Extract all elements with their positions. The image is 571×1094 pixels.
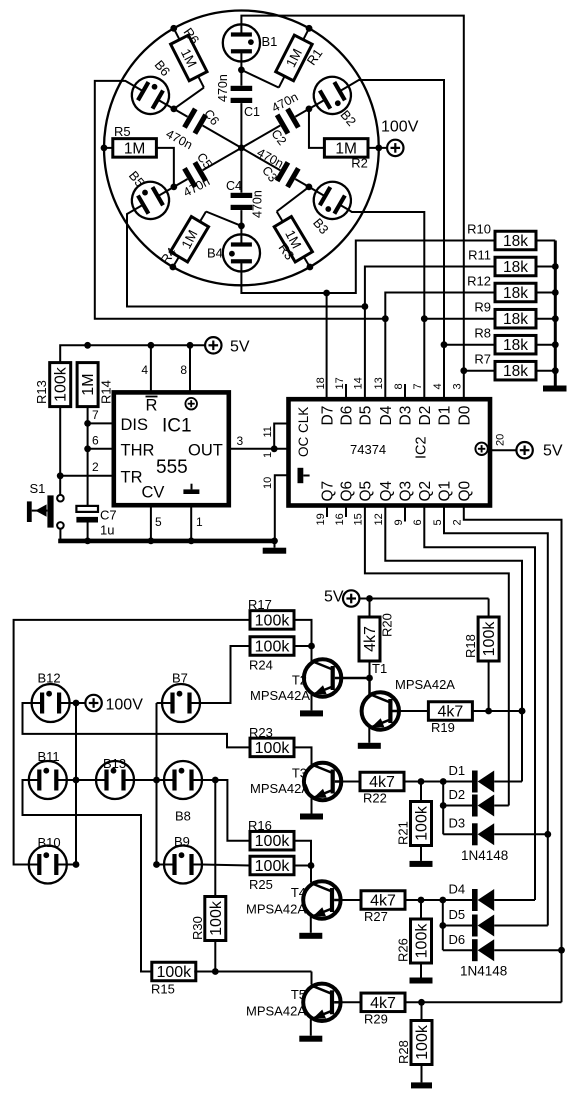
- svg-text:8: 8: [180, 363, 187, 377]
- svg-text:IC2: IC2: [414, 436, 430, 459]
- svg-text:1: 1: [262, 452, 274, 458]
- resistor R24 100k: [249, 637, 294, 673]
- resistor R8 18k: [474, 326, 555, 355]
- neon lamp B4: [223, 234, 260, 271]
- wire 18k ground bus: [552, 241, 559, 375]
- resistor R27 4k7: [361, 891, 472, 924]
- resistor R25 100k: [249, 856, 294, 892]
- resistor R4 1M: [157, 212, 241, 271]
- wire B6 to R12 junction: [95, 81, 386, 319]
- resistor R13 100k: [34, 363, 71, 407]
- svg-text:1: 1: [196, 515, 203, 529]
- svg-text:C1: C1: [244, 105, 260, 119]
- IC IC2 74374 body: [289, 399, 491, 505]
- svg-text:D6: D6: [339, 406, 356, 426]
- svg-text:3: 3: [237, 434, 244, 448]
- svg-text:R14: R14: [99, 380, 114, 404]
- svg-text:T2: T2: [292, 673, 307, 688]
- svg-text:100k: 100k: [156, 964, 192, 981]
- capacitor C3: [241, 148, 316, 191]
- svg-text:D2: D2: [449, 787, 466, 802]
- label C6 470n: [164, 107, 222, 152]
- svg-text:B10: B10: [38, 835, 61, 850]
- wire Q5 (pin15) to column: [365, 506, 509, 806]
- svg-text:100k: 100k: [255, 740, 291, 757]
- label C5 470n: [181, 150, 215, 200]
- svg-text:R7: R7: [474, 352, 491, 367]
- svg-text:D5: D5: [358, 406, 375, 426]
- svg-text:R21: R21: [396, 821, 411, 845]
- diode D1 1N4148: [449, 763, 523, 793]
- wire T4 base to R27: [341, 899, 361, 901]
- wire R7 row: [464, 370, 495, 372]
- svg-text:B8: B8: [175, 809, 191, 824]
- wire R17/R24 to T2 collector: [294, 620, 315, 662]
- svg-text:18k: 18k: [503, 311, 528, 328]
- svg-text:R24: R24: [249, 658, 273, 673]
- svg-text:T3: T3: [292, 766, 307, 781]
- wire 5V to R18: [359, 595, 488, 617]
- neon lamp B3: [307, 175, 358, 226]
- svg-text:S1: S1: [30, 481, 46, 496]
- svg-text:OC CLK: OC CLK: [296, 407, 311, 457]
- svg-text:2: 2: [92, 460, 99, 474]
- svg-text:100k: 100k: [414, 923, 431, 959]
- wire OUT pin3 to IC2: [229, 424, 289, 459]
- wire R9 row: [424, 318, 495, 320]
- transistor T4 MPSA42A: [246, 881, 341, 918]
- wire T2 emitter: [300, 695, 323, 717]
- supply +100V (lamp grid): [85, 695, 143, 714]
- label B1: [262, 34, 278, 49]
- resistor R10 18k: [467, 222, 555, 251]
- svg-text:R11: R11: [468, 248, 491, 263]
- svg-text:D3: D3: [398, 406, 415, 426]
- wire T3 base to R22: [341, 781, 360, 783]
- wire T2 collector: [311, 646, 313, 662]
- svg-text:20: 20: [495, 434, 507, 446]
- neon lamp B6: [125, 70, 176, 121]
- label B2: [337, 107, 359, 129]
- wire B8 to R16: [202, 777, 250, 841]
- svg-text:18k: 18k: [503, 337, 528, 354]
- svg-text:R26: R26: [396, 938, 411, 962]
- wire pin9 stub: [404, 506, 406, 522]
- switch S1 pushbutton: [27, 481, 64, 529]
- svg-text:T5: T5: [291, 987, 306, 1002]
- wire pin8 (vcc): [180, 345, 190, 392]
- wire R15 to T5 collector: [194, 968, 311, 984]
- resistor R1 1M: [241, 25, 325, 88]
- svg-text:T1: T1: [372, 661, 387, 676]
- svg-text:Q7: Q7: [320, 481, 337, 502]
- svg-text:C4: C4: [226, 179, 242, 193]
- label B5: [126, 168, 148, 190]
- wire B2 to D1 (pin4): [348, 80, 447, 399]
- svg-text:DIS: DIS: [121, 416, 149, 434]
- svg-text:R25: R25: [249, 877, 273, 892]
- supply +5V (IC2): [516, 442, 562, 460]
- svg-text:5V: 5V: [324, 589, 344, 606]
- svg-text:D1: D1: [437, 406, 454, 426]
- svg-text:Q3: Q3: [398, 481, 415, 502]
- resistor R7 18k: [474, 352, 555, 381]
- svg-text:100V: 100V: [381, 119, 419, 136]
- ground (R21): [410, 846, 433, 867]
- svg-text:18k: 18k: [503, 285, 528, 302]
- label 1N4148 (D1-D3): [461, 848, 508, 863]
- svg-text:4k7: 4k7: [369, 774, 395, 791]
- svg-text:1N4148: 1N4148: [460, 964, 507, 979]
- resistor R5 1M: [101, 124, 174, 187]
- wire pin19 stub: [326, 506, 328, 518]
- wire R12 row to D4 (pin13): [382, 293, 495, 400]
- svg-text:Q6: Q6: [339, 481, 356, 502]
- symbol CV internal ground (IC1): [183, 484, 199, 494]
- transistor T2 MPSA42A: [250, 659, 369, 703]
- svg-text:R18: R18: [463, 634, 478, 658]
- wire B10 to R17: [14, 620, 250, 865]
- svg-text:5V: 5V: [230, 339, 250, 356]
- svg-text:R12: R12: [467, 274, 491, 289]
- resistor R17 100k: [248, 597, 294, 629]
- wire B13/B7/B9 junction column: [134, 703, 164, 868]
- svg-text:100k: 100k: [255, 639, 291, 656]
- svg-text:D3: D3: [449, 816, 466, 831]
- resistor R16 100k: [248, 818, 294, 850]
- wire pin17 stub: [345, 384, 347, 399]
- svg-text:T4: T4: [291, 885, 306, 900]
- resistor R19 4k7: [428, 702, 525, 735]
- resistor R22 4k7: [360, 772, 472, 805]
- svg-text:R28: R28: [396, 1040, 411, 1064]
- svg-text:Q5: Q5: [358, 481, 375, 502]
- labels D7-D0 and top pin numbers: [315, 377, 474, 425]
- wire T5 emitter: [299, 1019, 322, 1041]
- capacitor C4: [231, 148, 253, 234]
- resistor R15 100k: [151, 962, 196, 996]
- svg-text:6: 6: [412, 519, 424, 525]
- label C4 470n: [226, 179, 265, 218]
- capacitor C6: [167, 105, 242, 148]
- resistor R30 100k: [190, 897, 226, 972]
- ground (R28): [411, 1065, 432, 1089]
- wire pin1 (gnd): [191, 505, 203, 541]
- label B6: [152, 57, 174, 79]
- svg-text:CV: CV: [142, 484, 165, 502]
- svg-text:MPSA42A: MPSA42A: [246, 1004, 306, 1019]
- resistor R11 18k: [468, 248, 555, 277]
- svg-text:14: 14: [353, 377, 365, 389]
- capacitor C7 1u: [76, 506, 116, 541]
- svg-text:15: 15: [353, 513, 365, 525]
- svg-text:B11: B11: [38, 749, 60, 764]
- svg-text:R15: R15: [151, 982, 175, 997]
- ground (555 rail): [263, 541, 287, 554]
- svg-text:R: R: [146, 397, 158, 415]
- wire B12 to R23: [23, 703, 251, 747]
- capacitor C1: [231, 62, 253, 148]
- wire B7 to R24: [200, 646, 250, 703]
- svg-text:B1: B1: [262, 34, 278, 49]
- svg-text:3: 3: [452, 383, 464, 389]
- svg-text:R10: R10: [467, 222, 491, 237]
- wire ground rail (555): [58, 538, 278, 545]
- wire R14 to DIS/THR/C7: [84, 406, 91, 506]
- wire 100V bus vertical: [67, 700, 96, 868]
- diode D3 1N4148: [443, 816, 548, 846]
- svg-text:18k: 18k: [503, 259, 528, 276]
- label C1 470n: [216, 74, 260, 119]
- svg-text:11: 11: [262, 426, 274, 437]
- resistor R3 1M: [274, 187, 313, 271]
- svg-text:R17: R17: [248, 597, 272, 612]
- svg-text:Q2: Q2: [417, 481, 434, 502]
- wire B1 to D0 (pin3): [241, 16, 467, 400]
- svg-text:D6: D6: [449, 932, 466, 947]
- svg-text:8: 8: [393, 383, 405, 389]
- svg-text:THR: THR: [121, 442, 155, 460]
- svg-text:B7: B7: [172, 671, 188, 686]
- svg-text:OUT: OUT: [188, 442, 223, 460]
- wire 100V ring bus (circle): [104, 11, 379, 286]
- capacitor C2: [241, 105, 316, 148]
- svg-text:100k: 100k: [255, 858, 291, 875]
- svg-text:2: 2: [452, 519, 464, 525]
- svg-text:18k: 18k: [503, 363, 528, 380]
- neon lamp B1: [223, 24, 260, 61]
- diode D4 1N4148: [449, 882, 536, 912]
- svg-text:17: 17: [334, 377, 346, 389]
- wire Q1 (pin5) to column: [444, 506, 551, 926]
- svg-text:R29: R29: [364, 1012, 388, 1027]
- resistor R12 18k: [467, 274, 555, 303]
- svg-text:D4: D4: [378, 405, 395, 425]
- wire pin5 (cv): [151, 505, 162, 541]
- neon lamp B7: [162, 671, 200, 723]
- wire R13 to S1/TR: [57, 406, 64, 494]
- svg-text:4k7: 4k7: [370, 995, 396, 1012]
- neon lamp B2: [307, 70, 358, 121]
- svg-text:B9: B9: [174, 834, 190, 849]
- svg-text:470n: 470n: [216, 74, 230, 102]
- svg-text:D7: D7: [320, 406, 337, 426]
- svg-text:5: 5: [155, 515, 162, 529]
- svg-text:Q4: Q4: [378, 480, 395, 501]
- svg-text:R2: R2: [351, 156, 368, 171]
- svg-text:MPSA42A: MPSA42A: [250, 688, 310, 703]
- svg-text:B12: B12: [38, 671, 61, 686]
- wire T4 emitter: [299, 917, 322, 939]
- svg-text:16: 16: [334, 513, 346, 525]
- svg-text:R5: R5: [114, 124, 131, 139]
- svg-text:4: 4: [432, 383, 444, 389]
- svg-text:MPSA42A: MPSA42A: [250, 781, 310, 796]
- resistor R23 100k: [249, 725, 294, 757]
- wire pin20 to 5V: [490, 434, 516, 450]
- wire R11 row to D5 (pin14): [362, 267, 496, 400]
- neon lamp B9: [164, 834, 202, 884]
- neon lamp B8: [164, 761, 202, 824]
- resistor R2 1M: [309, 109, 387, 171]
- wire Q4 (pin12) to column: [385, 506, 525, 782]
- resistor R14 1M: [77, 363, 113, 407]
- svg-text:470n: 470n: [251, 190, 265, 218]
- svg-text:R27: R27: [364, 909, 388, 924]
- svg-text:100k: 100k: [255, 833, 291, 850]
- wire DIS row (pin7): [88, 408, 114, 423]
- symbol OC internal ground (IC2): [298, 468, 310, 483]
- wire TR row (pin2): [60, 460, 114, 476]
- svg-text:MPSA42A: MPSA42A: [395, 677, 455, 692]
- wire D1-D3 cathode bus: [440, 782, 447, 835]
- svg-text:9: 9: [393, 519, 405, 525]
- wire B3 to D2 (pin7): [348, 210, 427, 400]
- wire T5 base to R29: [341, 1001, 361, 1003]
- svg-text:100k: 100k: [255, 612, 291, 629]
- svg-text:R20: R20: [380, 613, 395, 637]
- svg-text:100k: 100k: [53, 366, 70, 402]
- wire R30 top to B8 lead: [214, 780, 216, 897]
- svg-text:13: 13: [373, 377, 385, 389]
- supply +5V (driver): [324, 589, 359, 607]
- svg-text:10: 10: [262, 477, 274, 489]
- svg-text:R23: R23: [249, 725, 273, 740]
- neon lamp B11: [29, 749, 67, 799]
- svg-text:7: 7: [412, 383, 424, 389]
- wire Q2 (pin6) to column: [424, 506, 535, 901]
- svg-text:1M: 1M: [80, 373, 97, 395]
- supply +100V (ring): [381, 119, 419, 157]
- svg-text:1u: 1u: [100, 523, 114, 538]
- svg-text:R22: R22: [363, 791, 387, 806]
- svg-text:100k: 100k: [414, 1024, 431, 1060]
- svg-text:R13: R13: [34, 380, 49, 404]
- svg-text:12: 12: [373, 513, 385, 525]
- svg-text:TR: TR: [121, 469, 143, 487]
- svg-text:D0: D0: [456, 405, 473, 425]
- wire T1 base to R19: [399, 710, 428, 712]
- svg-text:18: 18: [315, 377, 327, 389]
- svg-text:100k: 100k: [414, 805, 431, 841]
- svg-text:R9: R9: [474, 300, 491, 315]
- wire D4-D6 cathode bus: [439, 900, 446, 950]
- svg-text:4: 4: [141, 363, 148, 377]
- supply +5V (555): [205, 337, 250, 355]
- svg-text:100k: 100k: [208, 900, 225, 936]
- wire T1 emitter: [358, 728, 381, 749]
- svg-text:Q1: Q1: [437, 481, 454, 502]
- svg-text:6: 6: [92, 434, 99, 448]
- neon lamp B10: [29, 835, 67, 884]
- resistor R28 100k: [396, 1002, 432, 1064]
- svg-text:R30: R30: [190, 916, 205, 940]
- svg-text:IC1: IC1: [162, 416, 192, 437]
- label B3: [310, 215, 332, 237]
- wire T3 emitter: [300, 798, 323, 819]
- wire B11 to R15: [23, 780, 154, 972]
- wire R23 to T3 collector: [294, 747, 312, 764]
- wire pin16 stub: [345, 506, 347, 518]
- diode D2 1N4148: [443, 787, 509, 817]
- svg-text:R8: R8: [474, 326, 491, 341]
- transistor T3 MPSA42A: [250, 763, 341, 800]
- svg-text:B13: B13: [103, 756, 126, 771]
- svg-text:5: 5: [432, 519, 444, 525]
- neon lamp B5: [125, 175, 176, 226]
- svg-text:19: 19: [315, 513, 327, 525]
- resistor R9 18k: [474, 300, 555, 329]
- resistor R26 100k: [396, 900, 432, 963]
- svg-text:555: 555: [156, 457, 188, 478]
- label C2 470n: [268, 90, 300, 148]
- diode D6 1N4148: [443, 932, 562, 961]
- svg-text:R19: R19: [431, 720, 455, 735]
- svg-text:1M: 1M: [124, 140, 146, 157]
- wire THR row (pin6): [88, 434, 114, 449]
- wire pin10 (IC2 gnd): [262, 475, 289, 541]
- resistor R6 1M: [170, 25, 207, 109]
- neon lamp B12: [32, 671, 70, 723]
- wire B5 to R11 junction: [127, 210, 365, 307]
- svg-text:100V: 100V: [106, 697, 144, 714]
- resistor R20 4k7: [359, 599, 395, 679]
- transistor T1 MPSA42A: [362, 661, 456, 730]
- svg-text:D2: D2: [417, 406, 434, 426]
- svg-text:7: 7: [92, 408, 99, 422]
- label B4: [207, 246, 223, 261]
- wire Q0 (pin2) to column: [464, 506, 565, 1003]
- label 1N4148 (D4-D6): [460, 964, 507, 979]
- svg-text:1N4148: 1N4148: [461, 848, 508, 863]
- svg-text:MPSA42A: MPSA42A: [246, 902, 306, 917]
- wire R16/R25 to T4 collector: [294, 841, 314, 883]
- svg-text:4k7: 4k7: [362, 626, 379, 652]
- svg-text:D4: D4: [449, 882, 466, 897]
- ground (R26): [410, 963, 433, 984]
- svg-text:B4: B4: [207, 246, 223, 261]
- wire R8 row: [444, 344, 495, 346]
- resistor R29 4k7: [361, 993, 562, 1026]
- capacitor C5: [167, 148, 242, 191]
- wire +5V rail (555): [60, 342, 205, 363]
- svg-text:100k: 100k: [481, 621, 498, 657]
- neon lamp B13: [96, 756, 134, 799]
- svg-text:18k: 18k: [503, 233, 528, 250]
- svg-text:D1: D1: [449, 763, 466, 778]
- labels Q7-Q0 and bottom pin numbers: [315, 480, 474, 525]
- svg-text:4k7: 4k7: [370, 893, 396, 910]
- svg-text:4k7: 4k7: [438, 704, 464, 721]
- ground (18k bus): [543, 371, 567, 392]
- transistor T5 MPSA42A: [246, 984, 341, 1021]
- label C3 470n: [255, 146, 286, 185]
- svg-text:Q0: Q0: [456, 480, 473, 501]
- diode D5 1N4148: [443, 907, 548, 937]
- resistor R21 100k: [396, 782, 432, 846]
- wire S1 bottom to rail: [59, 529, 61, 541]
- node hub (capacitor star centre): [238, 145, 245, 152]
- svg-text:5V: 5V: [543, 443, 563, 460]
- svg-text:C7: C7: [100, 508, 117, 523]
- wire pin8 stub: [404, 384, 406, 399]
- op-amp IC1 555 timer body: [114, 392, 229, 505]
- svg-text:74374: 74374: [350, 442, 386, 457]
- svg-text:D5: D5: [449, 907, 466, 922]
- wire B4 to R10 and D7 (pin18): [241, 241, 495, 400]
- node R20/T2 base/T1 collector: [366, 675, 373, 682]
- wire pin4 (reset): [141, 345, 151, 392]
